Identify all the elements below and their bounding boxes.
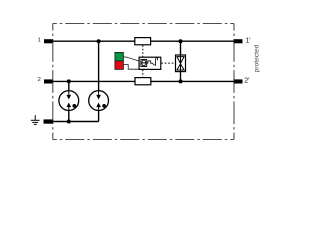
wire: earth bus	[48, 121, 99, 123]
wire: line 1 to GDT top	[180, 41, 182, 55]
wire: G2 bottom to earth bus	[98, 110, 100, 121]
terminal 1' block	[234, 39, 243, 43]
thermal element (theta box)	[141, 59, 147, 66]
thermal disconnect device U1 (outer box)	[139, 57, 161, 69]
status indicator: green field	[115, 52, 124, 61]
junction: line 2 / GDT	[179, 79, 183, 83]
control link: R1 to thermal disconnect (dotted)	[142, 45, 144, 57]
wire: GDT bottom to line 2	[180, 72, 182, 82]
svg-text:2′: 2′	[244, 78, 250, 85]
svg-text:1: 1	[38, 38, 41, 44]
svg-text:1′: 1′	[245, 38, 251, 45]
junction: line 1 / GDT	[179, 39, 183, 43]
svg-text:2: 2	[38, 77, 41, 83]
junction: line 2 / G1 branch	[67, 79, 71, 83]
disconnect switch symbol	[147, 58, 158, 66]
status indicator: red field	[115, 61, 124, 70]
control link: thermal disconnect to GDT (dotted)	[161, 62, 175, 64]
junction: earth bus / G1	[67, 120, 71, 124]
mechanical link: indicator to disconnect (lower)	[123, 65, 139, 70]
terminal 2 block	[44, 79, 53, 83]
svg-text:protected: protected	[254, 44, 261, 72]
resistor R1 (series decoupling, line 1)	[135, 38, 151, 45]
resistor R2 (series decoupling, line 2)	[135, 78, 151, 85]
wire: G1 bottom to earth bus	[68, 110, 70, 121]
terminal 1 block	[44, 39, 53, 43]
gas discharge tube F1	[176, 55, 186, 72]
junction: line 1 / G2 branch	[97, 39, 101, 43]
terminal 2' block	[234, 79, 243, 83]
wire: line 2 down to arrester G1	[68, 81, 70, 90]
control link: thermal disconnect to R2 (dotted)	[142, 70, 144, 78]
mechanical link: indicator to disconnect (upper)	[123, 57, 138, 61]
wire line 1 (terminal 1 to 1')	[48, 40, 238, 42]
theta label	[142, 60, 146, 66]
wire line 2 (terminal 2 to 2')	[48, 80, 238, 82]
ground terminal block	[44, 119, 53, 123]
arrester G1 (circle symbol)	[59, 91, 79, 111]
arrester G2 (circle symbol)	[89, 91, 109, 111]
ground symbol	[31, 115, 40, 124]
wire: line 1 down to arrester G2	[98, 41, 100, 91]
case outline (dash-dot enclosure)	[53, 24, 234, 140]
